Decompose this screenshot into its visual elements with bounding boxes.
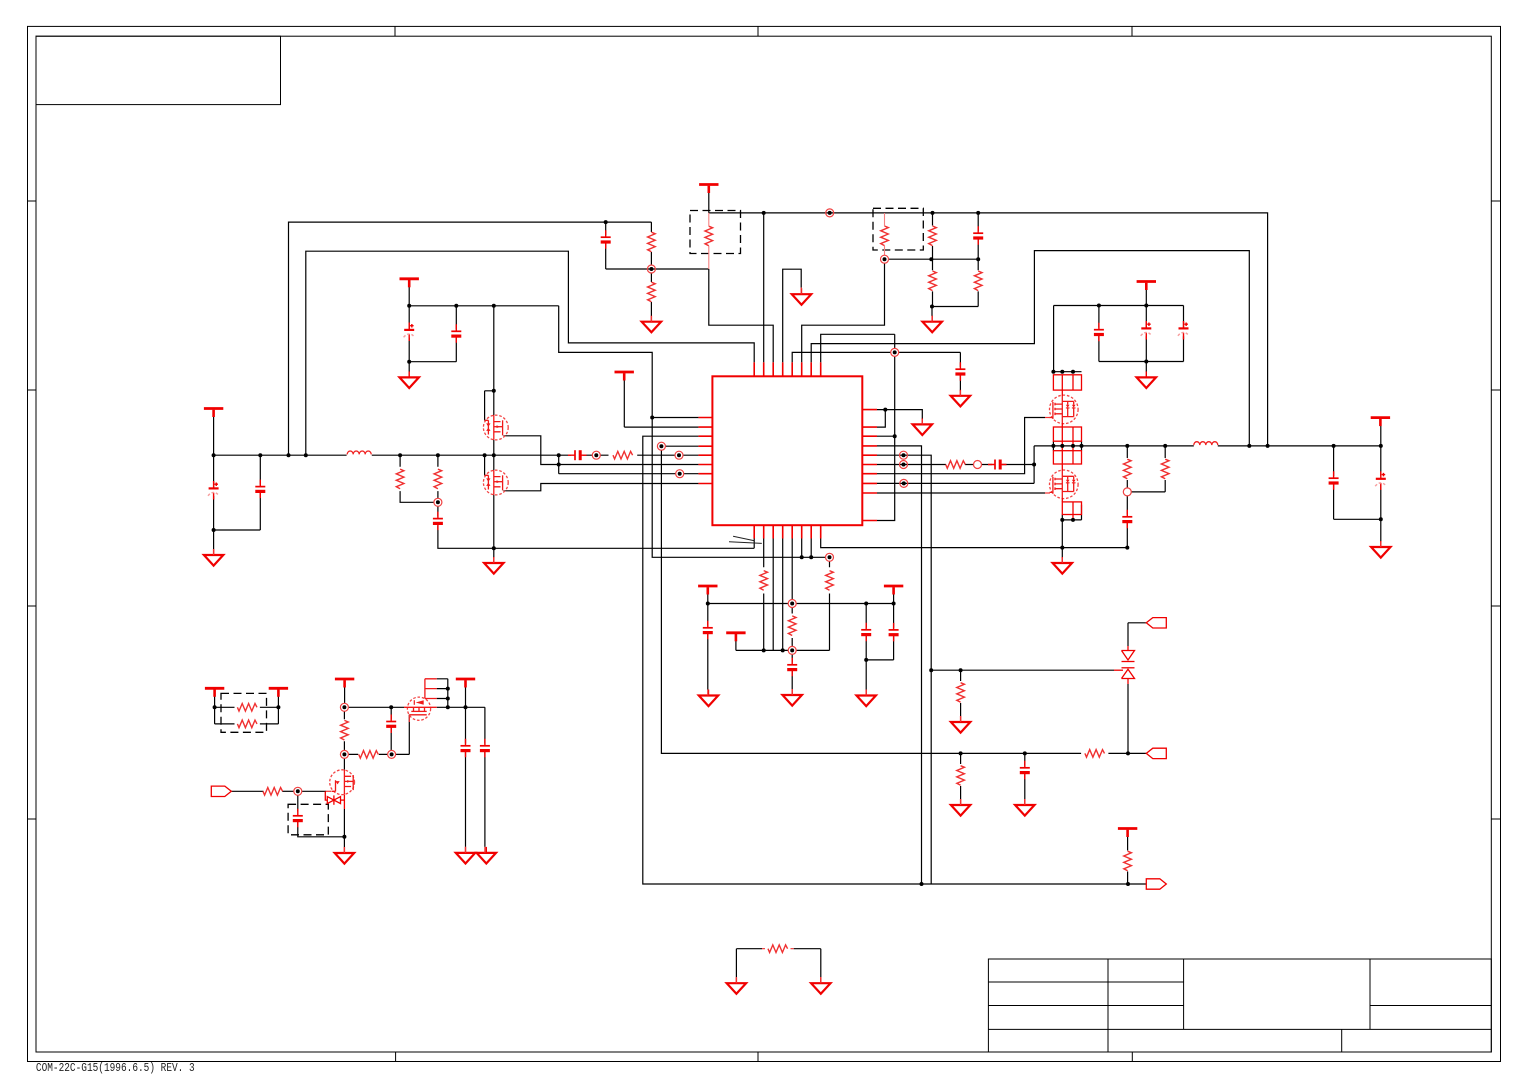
capacitor C17	[889, 623, 899, 642]
wire pin1L net vertical x=652.2	[559, 306, 826, 558]
wire ring-707 to ring-754 R20 chain	[343, 711, 345, 750]
junction dots Q4 rail	[389, 705, 393, 709]
dashed box D2 around R4	[873, 208, 923, 250]
ring Q5 gate node	[294, 787, 302, 795]
capacitor C24	[1122, 510, 1132, 529]
junction dots TVS rail 670	[929, 668, 933, 672]
capacitor C20	[461, 739, 471, 758]
connector K1	[1146, 618, 1166, 628]
capacitor C12	[433, 512, 443, 531]
wire C3 leads	[605, 222, 607, 269]
ground G17	[456, 847, 475, 864]
wire winding box1 top	[1053, 371, 1081, 373]
wire input connector K4 to R19	[231, 790, 263, 792]
red leads bottom-middle resistor	[762, 948, 794, 950]
resistor R24	[768, 945, 788, 953]
wire pin4L ring vertical and rail y=753.4	[661, 450, 1146, 753]
connector K3	[1146, 879, 1166, 889]
connector K4 input	[211, 786, 231, 796]
wire R17 chain from ring-829	[829, 561, 831, 650]
ground G22	[1053, 557, 1072, 574]
diagonal annotation strokes near pin1B	[729, 536, 762, 543]
wire pin7B	[810, 539, 812, 558]
wire T14 rail right of dashed box	[260, 696, 279, 724]
red tail Q6 gate	[1045, 492, 1050, 494]
capacitor C11 polarized	[404, 323, 415, 342]
wire connector K1 to TVS	[1128, 623, 1146, 646]
resistor R6	[929, 271, 937, 291]
wire T8 stem	[735, 640, 737, 650]
transistor Q4 horizontal	[404, 697, 437, 720]
junction dots RC vertical	[1032, 463, 1036, 467]
wire pin2L to T7	[624, 380, 698, 427]
junction dots rail 547.6	[1060, 546, 1064, 550]
power T6	[400, 279, 419, 288]
wire Q2 source to pin8L	[504, 484, 699, 491]
wire rail y=754.4 to Q4 gate	[348, 715, 409, 755]
resistor R4 leads	[884, 213, 886, 255]
wire C18 to Q5 source rail	[298, 822, 345, 837]
wire ring-650 to C15 ground G14	[791, 654, 793, 689]
resistor R25	[1124, 459, 1132, 479]
wire R25 chain	[1126, 446, 1128, 488]
power T13	[205, 688, 224, 697]
title block column lines	[1108, 959, 1370, 1052]
wire bus branch to pin7L	[559, 455, 699, 474]
wire T10 stem	[893, 594, 895, 604]
junction dots winding box3 bottom	[1060, 518, 1064, 522]
ground G13	[699, 690, 718, 707]
resistor R18	[788, 616, 796, 636]
wire R7 leads	[977, 259, 979, 306]
junction dots top rails	[604, 220, 608, 224]
capacitor C5	[955, 362, 965, 381]
ground G1	[204, 549, 223, 566]
wire C20 to ground G17	[465, 707, 467, 847]
capacitor C4	[973, 226, 983, 245]
resistor R14	[434, 469, 442, 489]
capacitor C3	[601, 230, 611, 249]
junction dots rail 603	[706, 602, 710, 606]
resistor R20	[341, 720, 349, 740]
junction dots bottom bus 884	[920, 882, 924, 886]
gate stub red tails	[214, 288, 1381, 984]
resistor R22	[237, 704, 257, 712]
ring pin6R row	[900, 461, 908, 469]
junction dots dashed box chains	[929, 257, 933, 261]
ring pin5-top chain	[891, 348, 899, 356]
ring pin7L	[676, 470, 684, 478]
wire right bus y=445.9	[1034, 445, 1381, 447]
wire C6 leads	[1098, 306, 1100, 362]
wire pin4B	[782, 539, 784, 651]
wire T1 stem	[213, 416, 215, 455]
wire R26 chain	[1131, 446, 1165, 492]
wire T12 stem	[465, 687, 467, 707]
capacitor C11b	[451, 324, 461, 343]
wire Q5 drain up to ring-754	[343, 758, 345, 769]
frame tick marks top	[395, 26, 1132, 36]
resistor R3	[705, 226, 713, 246]
power T2	[699, 185, 718, 194]
wire net A: bus to outer top rail y=222.1	[289, 222, 652, 455]
wire T11 stem	[344, 687, 346, 703]
wire R5 leads	[932, 213, 934, 259]
ring left RC res-pin	[675, 451, 683, 459]
ground G4	[923, 316, 942, 333]
wire Q2 source down	[493, 495, 495, 549]
ground G3	[792, 288, 811, 305]
wire pin7-top staircase to bus	[811, 251, 1249, 446]
wire T4 stem	[1145, 289, 1147, 306]
junction dots cap pair join	[864, 658, 868, 662]
wire Q1 gate L	[485, 391, 494, 421]
wire C17 chain	[866, 604, 893, 660]
wire pin3L chain bottom bus y=884	[643, 436, 1147, 884]
ground G14	[783, 689, 802, 706]
wire net B: bus to rail y=251.2 then to pin1-top	[306, 251, 754, 455]
wire rail y=361.5 and ground G6 stem	[1099, 362, 1184, 372]
wire pin1L	[652, 417, 698, 419]
wire C21 to ground G18	[484, 707, 486, 847]
ground G19	[727, 977, 746, 994]
resistor R1	[648, 232, 656, 252]
junction dots pin6B pin7B on wire 557	[800, 555, 804, 559]
capacitor C10	[1020, 761, 1030, 780]
resistor R8	[946, 461, 966, 469]
wire ground G15 stem	[865, 660, 867, 690]
resistor R11	[957, 766, 965, 786]
wire ring down to C18	[297, 795, 299, 811]
ground G11	[400, 371, 419, 388]
ring left RC cap-res	[592, 451, 600, 459]
wire ground G4 stem	[931, 307, 933, 317]
IC U1 left pin stubs	[698, 418, 712, 484]
junction dots right pins	[883, 408, 887, 412]
transistor Q3	[1050, 395, 1079, 424]
wire ring to Q5 gate	[302, 790, 326, 792]
capacitor C9 series on right	[988, 460, 1007, 470]
winding box W2b between bus and Q6	[1053, 441, 1081, 470]
frame tick marks right	[1491, 201, 1500, 819]
ring rail650	[788, 646, 796, 654]
wire top rail y=212.9	[709, 213, 1268, 446]
wire C10 to ground G10	[1024, 753, 1026, 799]
resistor R10	[1085, 750, 1105, 758]
wire Q2 gate from bus	[484, 455, 486, 475]
wire TVS rail y=670.2	[931, 669, 1114, 671]
junction dots rail 650	[762, 648, 766, 652]
op-amp / controller IC U1 body	[712, 376, 862, 525]
wire cap bottoms to ground G1	[214, 530, 261, 549]
capacitor C18	[293, 809, 303, 828]
wire pin2B resistor chain	[763, 539, 765, 651]
transistor Q5	[330, 770, 355, 795]
junction dots Q5 source rail	[342, 835, 346, 839]
wire R12 chain to connector K3	[1127, 836, 1129, 884]
wire Q1 drain chain	[493, 306, 495, 416]
wire rail y=603.5	[708, 603, 895, 605]
ground G7	[913, 418, 932, 435]
wire C12 to rail y=548.3	[438, 526, 754, 549]
wire pin6R RC series	[877, 464, 1034, 466]
zener diode D4 bidirectional	[325, 791, 344, 809]
junction dots cap trio rail	[1097, 304, 1101, 308]
wire C19 chain	[390, 707, 392, 750]
ring C19 node	[388, 750, 396, 758]
ring on y=269 rail	[647, 265, 655, 273]
resistor R7	[974, 271, 982, 291]
wire Q4 coil black half	[437, 679, 448, 708]
ring R25 R26 join	[1123, 488, 1131, 496]
inductor L2	[1194, 442, 1218, 445]
ground G16	[335, 847, 354, 864]
power T9	[698, 586, 717, 595]
inductor L1	[347, 451, 371, 454]
power T4	[1137, 282, 1156, 291]
capacitor C1 polarized	[208, 481, 219, 500]
wire pin9R to Q6 gate	[877, 492, 1045, 494]
wire C2 leads	[259, 455, 261, 530]
resistor R21	[359, 751, 379, 759]
junction dots winding box1 top	[1051, 370, 1055, 374]
wire T15 stem	[1380, 425, 1382, 446]
wire TVS bottom to rail 753.4	[1127, 684, 1129, 753]
wire R4 R5 ring rail y=259.2	[889, 258, 979, 260]
ring above R17	[826, 553, 834, 561]
red tail Q3 gate	[1045, 417, 1050, 419]
connector K2	[1146, 748, 1166, 758]
wire ring to C24	[1126, 496, 1128, 548]
power T11	[335, 679, 354, 688]
wire R14 chain	[437, 455, 439, 498]
wire pin8B to right rail y=547.6	[821, 539, 1128, 548]
junction dots Q4 winding	[446, 687, 450, 691]
wire R13 chain	[400, 455, 434, 502]
frame tick marks left	[28, 201, 37, 819]
IC U1 bottom pin stubs	[754, 525, 821, 538]
wire pin1R pin2R tie	[877, 410, 922, 428]
winding box W1 above Q3	[1053, 375, 1081, 396]
capacitor C15	[787, 658, 797, 677]
wire rail to winding box1	[1053, 306, 1055, 372]
wire y=269 rail	[606, 268, 709, 270]
title block row lines	[988, 982, 1491, 1029]
TVS diode pair D5	[1114, 646, 1135, 684]
ring right RC middle	[974, 461, 982, 469]
wire box3 to rail and ground G22	[1061, 515, 1063, 558]
title block outline	[988, 959, 1491, 1052]
capacitor C7 polarized	[1141, 321, 1152, 340]
ring on top rail	[826, 209, 834, 217]
wire pin7R to Q3 gate	[877, 418, 1045, 474]
power T8	[726, 633, 745, 642]
wire ring to C12	[437, 506, 439, 516]
junction dots left MOSFET column	[492, 546, 496, 550]
wire C4 leads	[977, 213, 979, 259]
ring pin5R row	[900, 451, 908, 459]
resistor R15	[613, 451, 633, 459]
junction dots dashed box D5 rails	[213, 705, 217, 709]
ring R13 R14 join	[434, 498, 442, 506]
resistor R26	[1161, 459, 1169, 479]
wire rail y=361.7 ground G11	[409, 362, 456, 372]
power T5	[1118, 829, 1137, 838]
ground G18	[477, 847, 496, 864]
wire R11 to ground G9	[960, 753, 962, 799]
wire left RC series on bus	[559, 454, 699, 456]
winding box W3 below Q6	[1062, 498, 1081, 520]
red tail ground stems	[214, 288, 1381, 984]
capacitor C2	[255, 480, 265, 499]
ground G6	[1137, 371, 1156, 388]
ring R20 bottom node	[340, 750, 348, 758]
ground G9	[951, 799, 970, 816]
top-left revision box	[36, 36, 281, 104]
ground G10	[1015, 799, 1034, 816]
junction dots rail 753.4	[959, 751, 963, 755]
junction dots output caps	[1379, 517, 1383, 521]
capacitor C19	[386, 715, 396, 734]
ring T11 node	[340, 703, 348, 711]
wire T6 rail y=305.8	[409, 286, 559, 306]
svg-text:COM-22C-G15(1996.6.5) REV. 3: COM-22C-G15(1996.6.5) REV. 3	[36, 1062, 195, 1075]
power T7	[615, 372, 634, 381]
ground G21	[1371, 541, 1390, 558]
ground G20	[811, 977, 830, 994]
wire pin6B	[801, 539, 803, 558]
resistor R5	[929, 226, 937, 246]
junction dots left cap bottoms	[212, 528, 216, 532]
capacitor C6	[1094, 323, 1104, 342]
resistor R2	[648, 282, 656, 302]
junction dots pin1L net	[650, 416, 654, 420]
capacitor C22	[1329, 471, 1339, 490]
wire Q4 drain rail y=707.3	[437, 706, 485, 708]
power T12	[456, 679, 475, 688]
wire T13 rail left of dashed box	[215, 696, 235, 724]
wire C11 leads	[408, 306, 410, 362]
wire rail y=306.5	[932, 306, 978, 308]
wire Q5 source vertical to ground G16	[343, 809, 345, 847]
wire pin5B	[791, 539, 793, 600]
wire ring-603 to R18	[791, 608, 793, 647]
wire pin8-top	[821, 334, 895, 362]
wire winding box3 bottom hook	[1062, 505, 1081, 520]
resistor R9	[957, 683, 965, 703]
resistor R3 leads	[708, 213, 710, 269]
IC U1 top pin stubs	[754, 362, 821, 376]
power T10	[884, 586, 903, 595]
transistor Q6	[1050, 470, 1079, 499]
red tail Q4 gate vertical	[408, 715, 410, 722]
ground G2	[642, 316, 661, 333]
wire C7 leads	[1145, 306, 1147, 362]
power T15	[1371, 418, 1390, 427]
wire C22 chain	[1334, 446, 1381, 519]
power T1	[204, 409, 223, 418]
wire T9 stem	[707, 594, 709, 604]
wire rail y=707.3 ring to Q4	[348, 706, 404, 708]
wire rail y=305.5	[1054, 305, 1184, 307]
wire C8 leads	[1183, 306, 1185, 362]
wire R3 bottom to pin3-top	[709, 269, 773, 362]
resistor R17	[826, 571, 834, 591]
wire left VCC bus y=455.2	[214, 454, 559, 456]
capacitor C23 polarized	[1375, 471, 1386, 490]
ground G15	[857, 690, 876, 707]
wire bus corner down to pin8R row	[877, 446, 1034, 484]
transistor Q1	[483, 415, 508, 440]
wire pin4R long vertical to bottom bus	[877, 446, 922, 884]
wire ring-894 vertical down to step pin	[877, 334, 895, 520]
resistor R16	[760, 571, 768, 591]
wire R19 to ring	[282, 790, 294, 792]
wire pin3B	[772, 539, 774, 651]
capacitor C14	[703, 621, 713, 640]
ring pin8R row	[900, 479, 908, 487]
ring rail603	[788, 600, 796, 608]
wire C16 chain	[865, 604, 867, 660]
wire C11b leads	[455, 306, 457, 362]
wire R9 to ground G8	[960, 670, 962, 716]
wire C23 chain to ground G21	[1380, 446, 1382, 542]
junction dots Q1 gate	[492, 389, 496, 393]
winding box W2a between Q3 and bus	[1053, 423, 1081, 451]
capacitor C8 polarized	[1178, 321, 1189, 340]
wire pin3R to ring vertical	[877, 435, 895, 437]
wire pin2-top vertical	[763, 213, 765, 362]
ground G8	[951, 716, 970, 733]
wire rail y=650.4	[736, 649, 830, 651]
wire winding box2 bus stubs	[1053, 441, 1081, 451]
wire R6 leads	[932, 259, 934, 306]
ground G12	[484, 557, 503, 574]
wire R24 bottom-middle to grounds	[736, 949, 820, 978]
junction dots left bus	[212, 453, 216, 457]
dashed box D1 around R3	[690, 211, 741, 254]
wire ground G12 stem	[493, 548, 495, 557]
wire C1 leads	[213, 455, 215, 530]
junction dots right bus	[1051, 444, 1055, 448]
ring under dashed box D2	[881, 255, 889, 263]
wire pin5R long vertical	[877, 455, 931, 884]
ring pin4L	[657, 442, 665, 450]
dashed box D5 around R22 R23	[221, 693, 267, 732]
resistor R4	[881, 226, 889, 246]
junction dots T6 rail	[407, 304, 411, 308]
power T14	[269, 688, 288, 697]
wire between Q1 Q2	[493, 440, 495, 471]
frame tick marks bottom	[396, 1052, 1133, 1062]
red tail Q5 gate	[326, 790, 331, 792]
capacitor C13 series on left bus	[568, 450, 587, 460]
coil above Q4	[425, 679, 437, 699]
capacitor C16	[861, 623, 871, 642]
wire C5 leads to ground G5	[959, 352, 961, 390]
transistor Q2	[483, 470, 508, 495]
resistor R23	[237, 720, 257, 728]
resistor R19	[263, 788, 283, 796]
resistor R12	[1124, 851, 1132, 871]
capacitor C21	[480, 739, 490, 758]
IC U1 right pin stubs	[862, 410, 877, 521]
ground G5	[951, 390, 970, 407]
wire pin4-top to ground G3	[783, 269, 802, 362]
wire pin5-top to ring chain	[792, 352, 960, 362]
wire pin6-top to dashed box net	[802, 263, 885, 362]
resistor R13	[396, 469, 404, 489]
